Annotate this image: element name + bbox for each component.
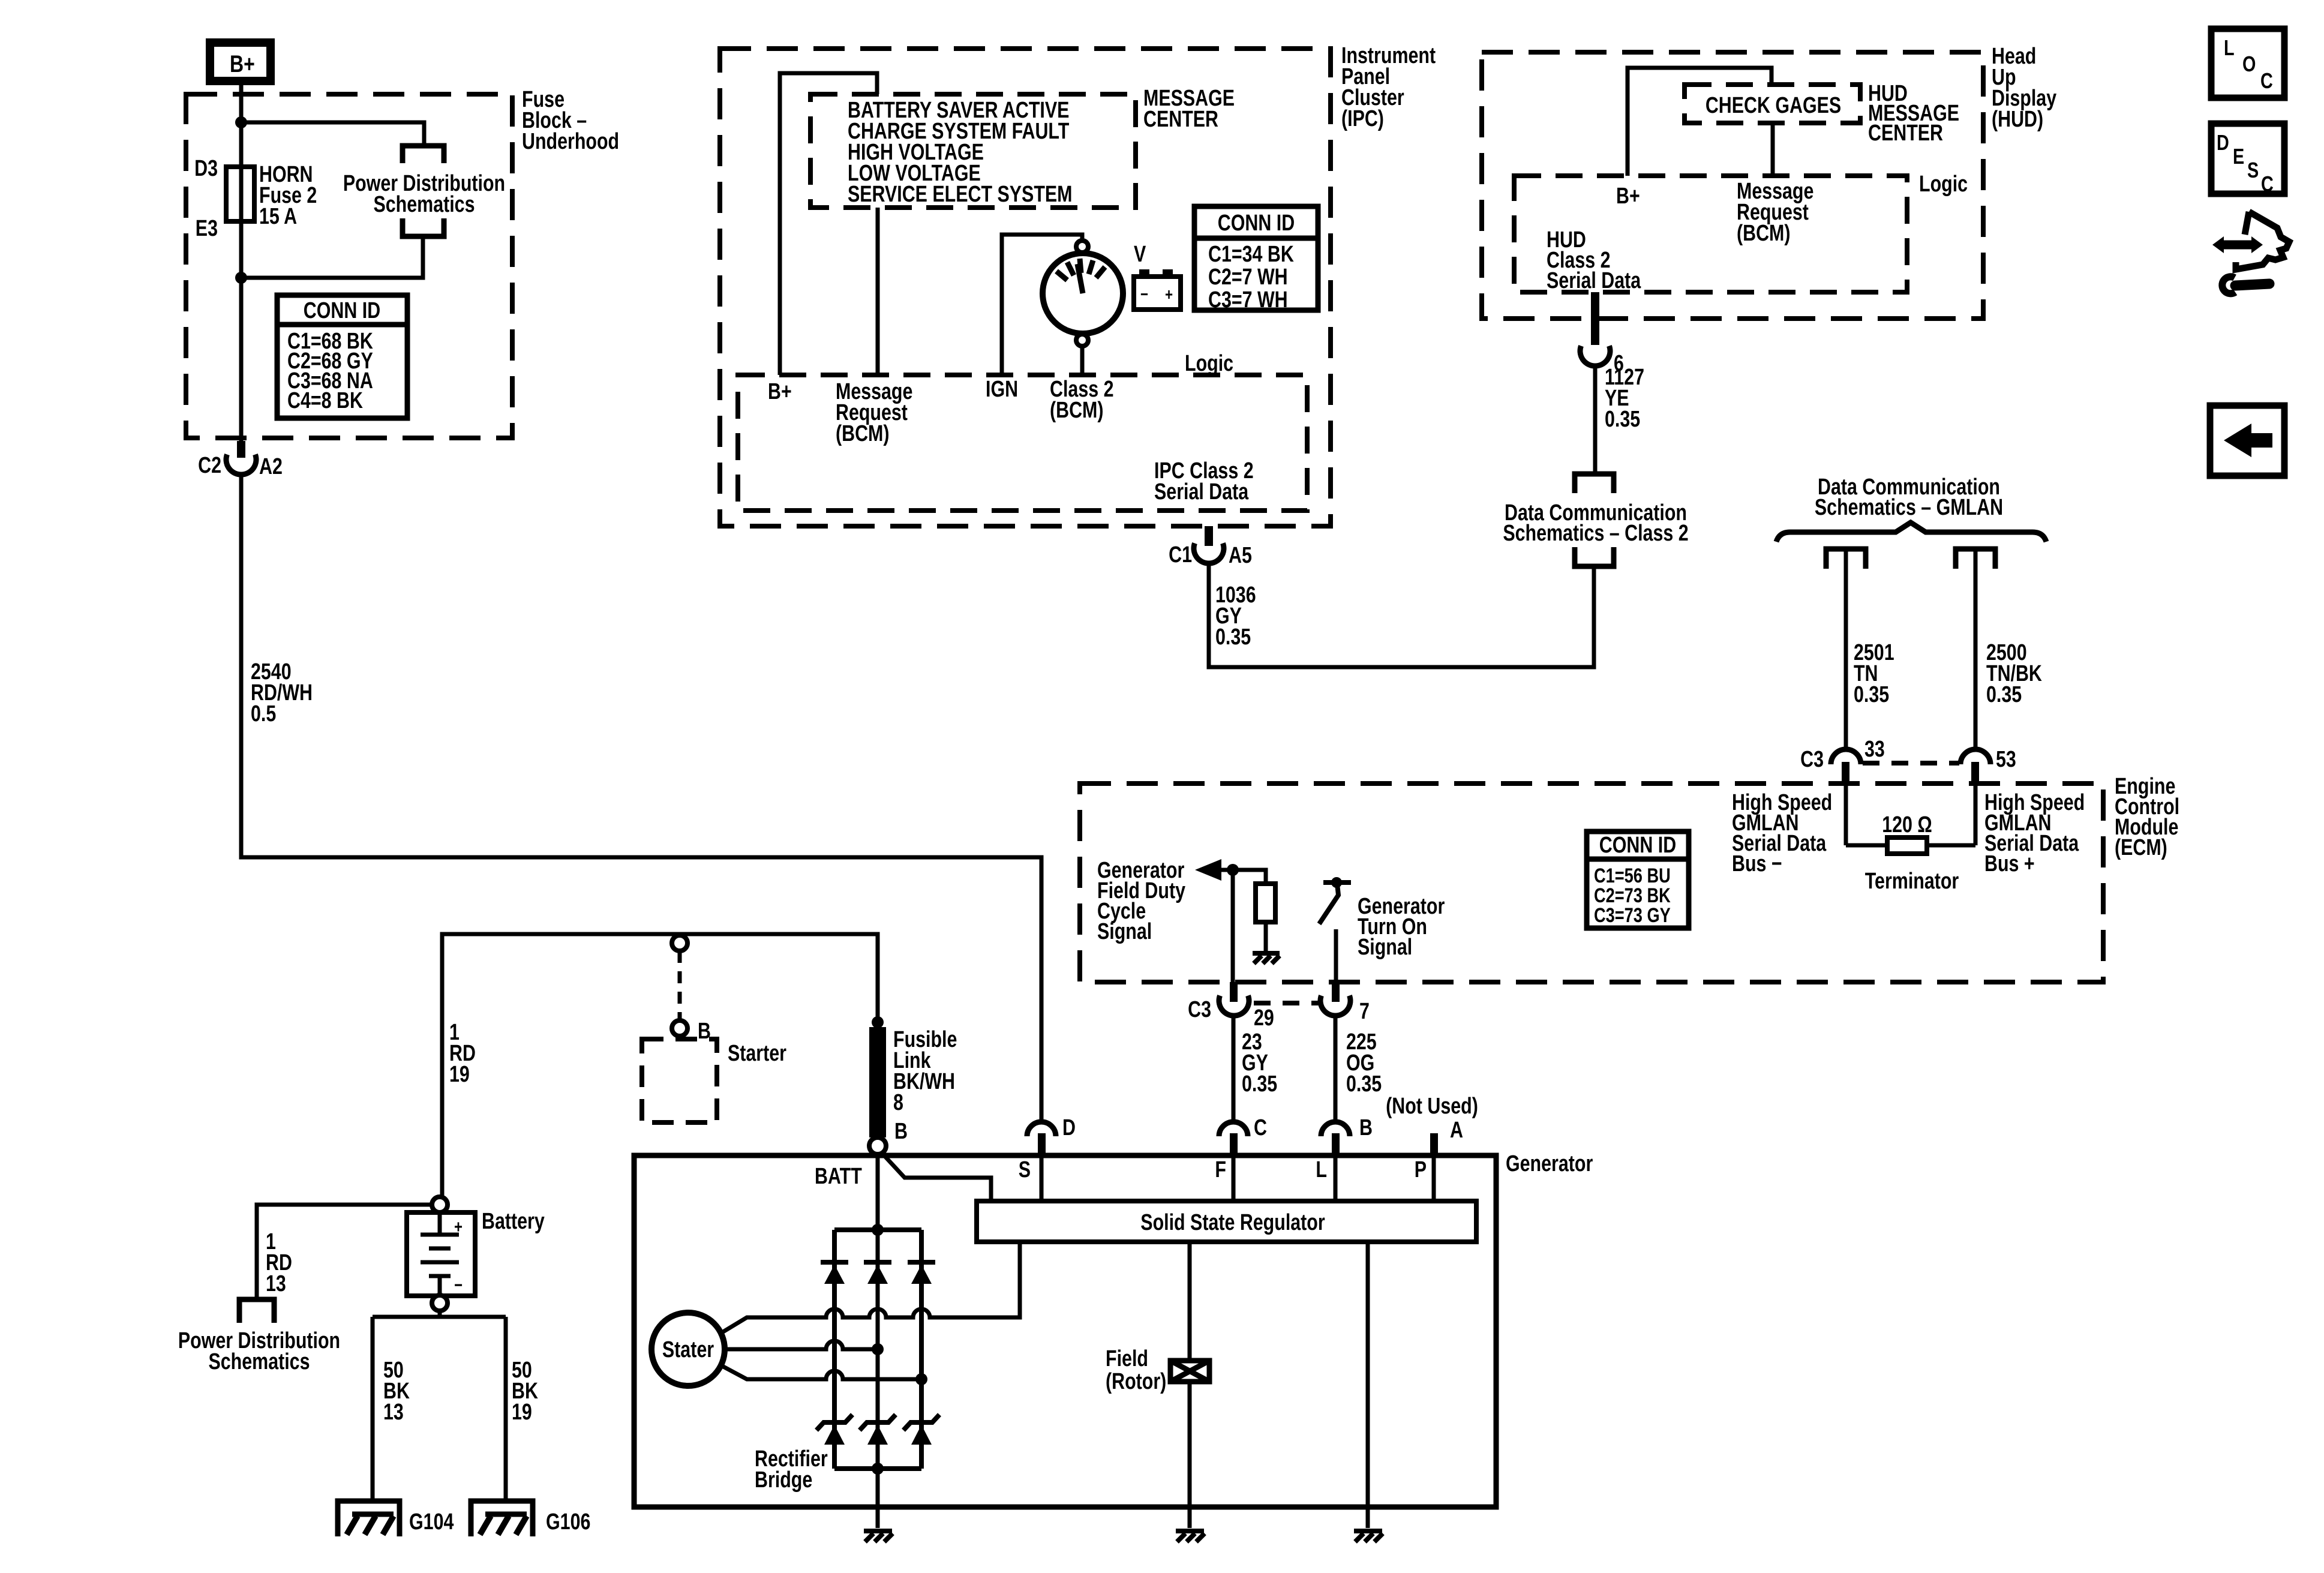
pin B xyxy=(1332,1133,1340,1155)
svg-text:Bus +: Bus + xyxy=(1984,851,2035,876)
wire field duty xyxy=(1221,870,1266,884)
label High Speed GMLAN Serial Data Bus plus xyxy=(1984,790,2085,876)
connector 6 cup xyxy=(1580,346,1610,367)
svg-text:Stater: Stater xyxy=(662,1337,714,1362)
wire battery cable 1 RD 19 xyxy=(442,934,878,1200)
label message center lines xyxy=(848,98,1073,207)
svg-text:E3: E3 xyxy=(196,216,218,241)
wire BATT to rectifier bridge xyxy=(876,1154,880,1469)
svg-text:G106: G106 xyxy=(546,1509,590,1535)
svg-text:C3=73 GY: C3=73 GY xyxy=(1594,904,1671,927)
wire 2500 TN/BK xyxy=(1974,549,1978,749)
label Power Distribution Schematics (battery) xyxy=(178,1328,340,1374)
svg-text:−: − xyxy=(1140,285,1148,304)
starter dashed box xyxy=(642,1039,717,1122)
icon back arrow button xyxy=(2210,406,2284,476)
pin A not used xyxy=(1430,1133,1438,1155)
svg-text:Signal: Signal xyxy=(1358,935,1412,960)
wire bridge to ground xyxy=(876,1469,880,1528)
svg-text:D3: D3 xyxy=(194,156,218,181)
wire stator middle phase xyxy=(725,1341,878,1349)
wire resistor to ground xyxy=(1264,922,1268,951)
svg-text:B: B xyxy=(698,1019,711,1044)
svg-text:(BCM): (BCM) xyxy=(1737,221,1791,246)
icon diagnostic car with wrench xyxy=(2212,212,2289,293)
svg-text:CENTER: CENTER xyxy=(1143,107,1218,132)
ground G106 xyxy=(471,1501,533,1536)
label Instrument Panel Cluster (IPC) xyxy=(1341,43,1436,131)
CONN ID table fuse block xyxy=(277,295,407,418)
svg-text:B: B xyxy=(894,1119,908,1144)
label Fuse Block Underhood xyxy=(522,87,619,154)
ground generator bridge xyxy=(864,1531,893,1542)
svg-text:C: C xyxy=(2261,172,2274,196)
pin 7 ECM xyxy=(1332,982,1340,1002)
pin connector 6 xyxy=(1591,292,1599,345)
label MESSAGE CENTER xyxy=(1143,86,1235,132)
wire ECM to connector B (225 OG) xyxy=(1334,1016,1338,1121)
label Generator Turn On Signal xyxy=(1358,894,1445,960)
fuse block underhood dashed box xyxy=(186,94,512,438)
svg-text:19: 19 xyxy=(449,1062,470,1087)
pin C1/A5 xyxy=(1205,526,1213,546)
pin 53 xyxy=(1971,762,1979,785)
icon DESC button xyxy=(2211,124,2284,196)
svg-text:Bridge: Bridge xyxy=(755,1467,812,1493)
wire GMLAN bus minus to terminator xyxy=(1844,785,1848,845)
CONN ID table IPC xyxy=(1194,206,1318,313)
svg-text:CENTER: CENTER xyxy=(1868,121,1943,146)
label Message Request (BCM) HUD xyxy=(1737,179,1813,246)
ECM dashed box xyxy=(1080,784,2103,982)
diode lower left (avalanche) xyxy=(816,1415,852,1445)
connector C2/A2 cup xyxy=(226,455,256,475)
icon LOC button xyxy=(2211,29,2284,98)
wire field to ground xyxy=(1188,1382,1192,1528)
svg-text:13: 13 xyxy=(266,1271,286,1296)
IPC logic dashed box xyxy=(738,375,1307,511)
svg-text:Field: Field xyxy=(1106,1346,1148,1371)
svg-text:29: 29 xyxy=(1254,1005,1274,1031)
svg-text:Logic: Logic xyxy=(1185,351,1233,376)
connector 53 dome xyxy=(1960,749,1990,764)
node bridge top junction xyxy=(872,1224,884,1236)
voltmeter top terminal xyxy=(1076,241,1088,253)
wire switch to pin 7 xyxy=(1334,929,1338,983)
svg-text:Schematics – GMLAN: Schematics – GMLAN xyxy=(1815,495,2003,520)
label 23 GY 0.35 xyxy=(1242,1029,1277,1097)
B+ power terminal box xyxy=(210,43,271,81)
label Engine Control Module (ECM) xyxy=(2115,774,2179,860)
label 50 BK 19 xyxy=(512,1358,538,1425)
dashed connector link C3 xyxy=(1254,1001,1320,1005)
label 1 RD 19 xyxy=(449,1020,476,1087)
label Field (Rotor) xyxy=(1106,1346,1166,1394)
svg-text:(HUD): (HUD) xyxy=(1992,107,2043,132)
pin C3 ECM xyxy=(1230,982,1238,1002)
svg-text:(IPC): (IPC) xyxy=(1341,106,1384,131)
svg-text:53: 53 xyxy=(1996,747,2016,772)
wire regulator to field xyxy=(1188,1242,1192,1361)
wire GMLAN bus plus to terminator xyxy=(1974,785,1978,845)
svg-text:IGN: IGN xyxy=(986,377,1018,402)
switch generator turn on xyxy=(1319,877,1351,924)
node junction bottom xyxy=(235,272,247,284)
svg-text:0.35: 0.35 xyxy=(1986,682,2022,707)
wire to power distribution bracket xyxy=(241,122,424,144)
label Rectifier Bridge xyxy=(755,1446,828,1493)
svg-text:Schematics – Class 2: Schematics – Class 2 xyxy=(1503,521,1688,546)
diode lower middle (avalanche) xyxy=(860,1415,896,1445)
solid state regulator box xyxy=(977,1201,1476,1242)
svg-text:C3: C3 xyxy=(1800,747,1824,772)
svg-text:CHECK GAGES: CHECK GAGES xyxy=(1706,93,1841,118)
svg-text:L: L xyxy=(1316,1157,1327,1182)
connector C3/29 cup xyxy=(1219,996,1249,1016)
svg-text:E: E xyxy=(2233,144,2244,169)
check gages dashed box xyxy=(1685,85,1860,123)
label HUD MESSAGE CENTER xyxy=(1868,81,1959,146)
svg-text:B+: B+ xyxy=(1616,184,1640,209)
wire 2501 TN xyxy=(1844,549,1848,749)
svg-text:CONN ID: CONN ID xyxy=(304,298,380,323)
wire HUD B+ xyxy=(1628,68,1771,176)
svg-text:C: C xyxy=(2260,68,2273,93)
IPC dashed box xyxy=(720,49,1331,526)
svg-text:33: 33 xyxy=(1864,737,1885,762)
label Data Communication Schematics Class 2 xyxy=(1503,500,1688,546)
label Head Up Display (HUD) xyxy=(1992,44,2056,132)
wire L terminal xyxy=(1334,1155,1338,1201)
svg-text:A: A xyxy=(1450,1118,1463,1143)
label 50 BK 13 xyxy=(383,1358,410,1425)
wire HUD message request xyxy=(1771,123,1775,176)
svg-text:+: + xyxy=(454,1217,463,1237)
diode lower right (avalanche) xyxy=(903,1415,939,1445)
label HORN Fuse 2 15 A xyxy=(259,162,317,229)
label 2500 TN/BK 0.35 xyxy=(1986,640,2042,707)
bracket power distribution (battery) xyxy=(239,1299,274,1323)
svg-text:B+: B+ xyxy=(230,51,255,77)
label 1127 YE 0.35 xyxy=(1605,365,1644,432)
label 2501 TN 0.35 xyxy=(1854,640,1894,707)
svg-text:A5: A5 xyxy=(1229,543,1252,568)
bracket GMLAN left xyxy=(1826,549,1866,569)
ground regulator xyxy=(1354,1531,1383,1542)
svg-text:Schematics: Schematics xyxy=(374,192,475,217)
pin D xyxy=(1038,1133,1046,1155)
connector D dome xyxy=(1027,1122,1056,1136)
label IPC Class 2 Serial Data xyxy=(1154,458,1254,505)
wire battery negative to grounds xyxy=(438,1311,442,1317)
ground field xyxy=(1176,1531,1205,1542)
bridge right branch xyxy=(919,1230,924,1469)
fusible link element xyxy=(869,1027,886,1137)
svg-text:L: L xyxy=(2224,35,2235,60)
svg-text:(Not Used): (Not Used) xyxy=(1386,1094,1478,1119)
connector C2/A2 pin xyxy=(237,441,245,458)
field rotor symbol xyxy=(1170,1361,1209,1382)
label Class 2 (BCM) xyxy=(1050,377,1114,423)
wire B+ to fuse xyxy=(239,81,244,167)
svg-text:−: − xyxy=(454,1275,463,1295)
svg-text:D: D xyxy=(1062,1115,1076,1140)
rectifier bridge bottom bus xyxy=(834,1466,921,1471)
svg-text:SERVICE ELECT SYSTEM: SERVICE ELECT SYSTEM xyxy=(848,182,1073,207)
svg-text:0.35: 0.35 xyxy=(1605,407,1640,432)
wire 1127 YE 0.35 xyxy=(1593,366,1598,474)
pin 33 xyxy=(1842,762,1849,785)
svg-text:C: C xyxy=(1254,1115,1267,1140)
label Generator Field Duty Cycle Signal xyxy=(1097,858,1185,944)
svg-text:Battery: Battery xyxy=(482,1209,545,1234)
svg-text:V: V xyxy=(1134,242,1146,267)
svg-text:C3: C3 xyxy=(1188,997,1211,1022)
label Power Distribution Schematics (fuse block) xyxy=(343,171,505,217)
battery icon IPC xyxy=(1134,269,1181,310)
svg-text:6: 6 xyxy=(1614,351,1624,376)
svg-text:C2: C2 xyxy=(198,453,221,478)
svg-text:P: P xyxy=(1415,1157,1427,1182)
wire 2540 RD/WH 0.5 xyxy=(241,474,1041,1121)
svg-text:0.5: 0.5 xyxy=(251,701,276,727)
svg-text:(Rotor): (Rotor) xyxy=(1106,1369,1166,1394)
svg-text:0.35: 0.35 xyxy=(1346,1071,1382,1097)
arrow field duty signal xyxy=(1195,859,1221,881)
svg-text:CONN ID: CONN ID xyxy=(1599,833,1676,858)
wire 1 RD 13 xyxy=(257,1205,432,1297)
brace GMLAN xyxy=(1776,523,2046,542)
wire terminator xyxy=(1846,843,1975,848)
dashed connector link 33-53 xyxy=(1863,761,1959,766)
label HUD Class 2 Serial Data xyxy=(1547,227,1641,293)
label 2540 RD/WH 0.5 xyxy=(251,659,313,727)
node battery top circle xyxy=(432,1197,448,1212)
svg-text:+: + xyxy=(1165,285,1173,304)
wire bracket to junction xyxy=(241,236,423,278)
wire S terminal xyxy=(1040,1155,1044,1201)
stator winding circle xyxy=(651,1313,725,1386)
pin C xyxy=(1230,1133,1238,1155)
voltmeter gauge xyxy=(1043,253,1123,334)
connector 7 cup xyxy=(1320,996,1350,1016)
diode upper right xyxy=(908,1262,935,1284)
svg-text:C2=7 WH: C2=7 WH xyxy=(1208,265,1288,290)
wire dashed starter link xyxy=(678,951,682,1020)
svg-text:15 A: 15 A xyxy=(259,204,297,229)
ground ECM internal xyxy=(1253,953,1280,963)
wire fuse to connector C2 xyxy=(239,278,244,443)
svg-text:S: S xyxy=(1019,1157,1031,1182)
svg-text:13: 13 xyxy=(383,1400,404,1425)
CONN ID table ECM xyxy=(1587,831,1689,928)
wire 1036 GY 0.35 xyxy=(1209,563,1594,667)
wire ECM to connector C (23 GY) xyxy=(1232,1016,1236,1121)
svg-text:8: 8 xyxy=(893,1090,903,1115)
svg-text:D: D xyxy=(2217,130,2229,155)
wire message request IPC xyxy=(876,208,880,375)
node starter tap circle xyxy=(672,935,687,951)
bracket power distribution bottom xyxy=(403,218,444,236)
svg-text:0.35: 0.35 xyxy=(1215,625,1251,650)
node fusible link top dot xyxy=(872,1016,884,1028)
svg-text:Bus −: Bus − xyxy=(1732,851,1782,876)
svg-text:Logic: Logic xyxy=(1919,172,1968,197)
node starter B circle xyxy=(672,1020,687,1036)
resistor pull-up xyxy=(1256,884,1275,922)
label Message Request (BCM) IPC xyxy=(836,379,912,446)
bridge left branch xyxy=(832,1230,837,1469)
svg-text:CONN ID: CONN ID xyxy=(1218,211,1295,236)
wire regulator right to ground xyxy=(1366,1242,1370,1528)
svg-text:(ECM): (ECM) xyxy=(2115,835,2167,860)
wire junction to pin C3 xyxy=(1231,870,1235,983)
generator box xyxy=(634,1155,1496,1507)
node BATT B circle xyxy=(869,1137,886,1154)
node junction top xyxy=(235,116,247,128)
node bottom phase junction xyxy=(915,1373,927,1385)
svg-text:G104: G104 xyxy=(409,1509,454,1535)
svg-text:7: 7 xyxy=(1359,999,1370,1024)
diode upper left xyxy=(821,1262,848,1284)
wire stator top phase xyxy=(721,1242,1020,1333)
svg-text:C1=34 BK: C1=34 BK xyxy=(1208,242,1294,267)
node field duty junction xyxy=(1227,864,1239,876)
svg-text:Schematics: Schematics xyxy=(209,1349,310,1374)
svg-text:Terminator: Terminator xyxy=(1865,869,1959,894)
svg-text:0.35: 0.35 xyxy=(1854,682,1889,707)
svg-text:A2: A2 xyxy=(259,454,283,479)
svg-text:120 Ω: 120 Ω xyxy=(1882,812,1932,837)
label 1036 GY 0.35 xyxy=(1215,583,1256,650)
svg-text:Serial Data: Serial Data xyxy=(1154,479,1249,505)
label 225 OG 0.35 xyxy=(1346,1029,1382,1097)
message center dashed box xyxy=(810,94,1136,208)
svg-text:C1: C1 xyxy=(1169,542,1192,568)
rectifier bridge top bus xyxy=(834,1227,921,1232)
svg-text:0.35: 0.35 xyxy=(1242,1071,1277,1097)
ground G104 xyxy=(338,1501,400,1536)
wire voltmeter to logic xyxy=(1080,346,1085,375)
svg-text:(BCM): (BCM) xyxy=(1050,398,1104,423)
diode upper middle xyxy=(864,1262,891,1284)
label 1 RD 13 xyxy=(266,1229,292,1296)
svg-text:Generator: Generator xyxy=(1506,1151,1593,1176)
svg-text:Underhood: Underhood xyxy=(522,129,619,154)
label High Speed GMLAN Serial Data Bus minus xyxy=(1732,790,1832,876)
resistor terminator 120 ohm xyxy=(1887,837,1927,854)
svg-text:Solid State Regulator: Solid State Regulator xyxy=(1140,1210,1325,1235)
connector C dome xyxy=(1219,1122,1248,1136)
wire BATT to regulator xyxy=(882,1153,991,1201)
bracket power distribution top xyxy=(403,146,444,163)
bracket GMLAN right xyxy=(1956,549,1995,569)
svg-text:O: O xyxy=(2242,52,2256,76)
svg-text:Starter: Starter xyxy=(728,1041,786,1066)
node middle phase junction xyxy=(872,1343,884,1355)
svg-text:B: B xyxy=(1359,1115,1373,1140)
svg-text:Serial Data: Serial Data xyxy=(1547,268,1641,293)
svg-text:C3=7 WH: C3=7 WH xyxy=(1208,287,1288,313)
svg-text:S: S xyxy=(2247,158,2259,182)
wire P terminal xyxy=(1432,1155,1436,1201)
svg-text:19: 19 xyxy=(512,1400,532,1425)
svg-text:BATT: BATT xyxy=(815,1164,862,1189)
svg-text:Signal: Signal xyxy=(1097,919,1152,944)
svg-text:C4=8 BK: C4=8 BK xyxy=(287,388,363,413)
svg-text:F: F xyxy=(1215,1157,1226,1182)
bracket class 2 lower xyxy=(1575,547,1614,566)
voltmeter bottom terminal xyxy=(1076,334,1088,346)
wire F terminal xyxy=(1232,1155,1236,1201)
node battery bottom circle xyxy=(432,1295,448,1311)
connector 33 dome xyxy=(1831,749,1861,764)
fuse F2 HORN xyxy=(226,167,254,278)
svg-text:B+: B+ xyxy=(768,379,792,404)
label Data Communication Schematics GMLAN xyxy=(1815,475,2003,520)
HUD logic dashed box xyxy=(1514,176,1907,292)
wire stator bottom phase xyxy=(721,1365,921,1379)
svg-text:(BCM): (BCM) xyxy=(836,421,890,446)
wire B+ IPC xyxy=(780,73,877,375)
bracket class 2 upper xyxy=(1575,474,1614,493)
node bridge bottom junction xyxy=(872,1463,884,1475)
label Fusible Link BK/WH 8 xyxy=(893,1027,957,1115)
connector C1/A5 cup xyxy=(1194,544,1224,564)
wire IGN to voltmeter xyxy=(1002,235,1082,375)
HUD dashed box xyxy=(1482,52,1983,319)
battery xyxy=(407,1212,475,1296)
connector B dome xyxy=(1321,1122,1350,1136)
